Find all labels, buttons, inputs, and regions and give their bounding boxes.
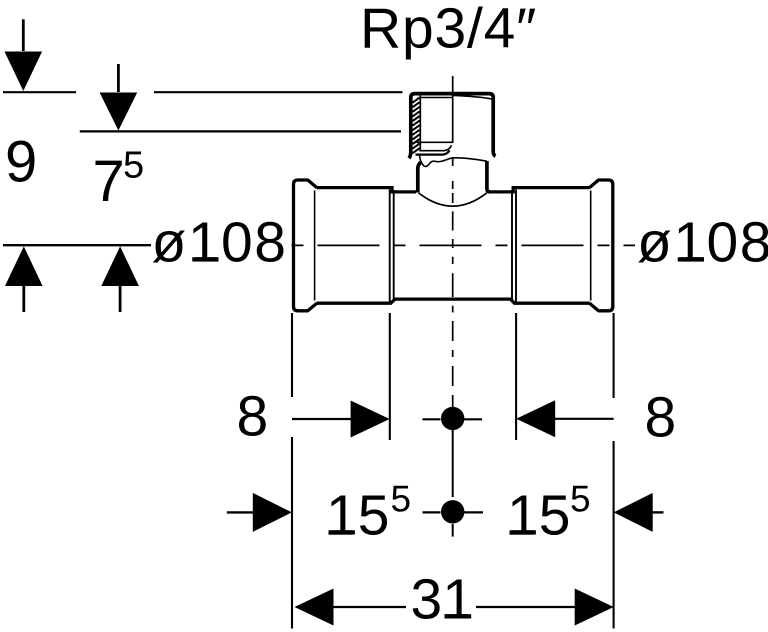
branch neck left edge <box>418 162 421 192</box>
svg-text:15: 15 <box>326 484 389 548</box>
thread undercut line lower <box>416 150 450 154</box>
thread hatching <box>413 98 420 154</box>
branch socket outline <box>409 94 496 159</box>
svg-text:15: 15 <box>507 484 570 548</box>
serif foot of digit 1 (31) <box>445 614 469 618</box>
left press collar bead <box>294 180 317 311</box>
section boundary line at branch center <box>452 95 454 143</box>
extension line 2 (left tube stop) <box>389 313 391 440</box>
svg-text:5: 5 <box>391 479 412 520</box>
svg-text:ø108: ø108 <box>637 210 768 274</box>
svg-text:5: 5 <box>570 479 591 520</box>
dimension arrow 15.5 right <box>614 493 664 532</box>
right press collar bead <box>590 180 613 311</box>
centerline stem below dot 2 <box>452 524 454 537</box>
left tube stop line <box>389 190 391 302</box>
svg-text:9: 9 <box>5 129 37 194</box>
origin dot row 15.5 <box>441 500 464 523</box>
left step line <box>393 190 395 301</box>
dimension arrow up (7.5) <box>101 246 139 312</box>
dimension line 8 right with arrow <box>516 400 613 437</box>
dot stubs row 8 <box>423 418 483 420</box>
dimension line top (9 upper reference) <box>3 91 403 93</box>
centerline horizontal (dash-dot through body) <box>292 244 636 246</box>
right step line <box>511 190 513 301</box>
origin dot row 8 <box>441 407 464 430</box>
left bead face line <box>314 191 316 301</box>
tee body outline right socket top edge <box>489 188 590 192</box>
branch neck right edge <box>487 161 490 192</box>
dimension arrow 15.5 left <box>227 493 292 532</box>
serif foot of digit 1 (left 15) <box>329 530 353 534</box>
thread minor line <box>419 96 421 152</box>
centerline vertical dashes through branch and body <box>452 157 454 407</box>
centerline vertical above branch <box>452 76 454 95</box>
right tube stop line <box>515 190 517 302</box>
serif foot of digit 1 (right 108) <box>681 257 705 261</box>
svg-text:8: 8 <box>645 386 677 450</box>
svg-text:8: 8 <box>237 384 269 448</box>
tee body outline left socket top edge <box>317 188 417 192</box>
dimension arrow down (9) <box>5 19 43 91</box>
dimension line 8 left with arrow <box>292 401 390 438</box>
dimension line 31 with arrows <box>295 589 614 626</box>
svg-text:ø108: ø108 <box>152 210 288 274</box>
extension line 5 (right bead outer) <box>613 313 615 629</box>
break line wavy <box>420 156 487 167</box>
dimension arrow up (9) <box>5 246 43 312</box>
svg-text:7: 7 <box>93 149 125 214</box>
svg-text:31: 31 <box>411 567 474 631</box>
branch to body intersection arc <box>419 193 487 206</box>
dimension line left (diameter reference) <box>3 244 151 246</box>
extension line 4 (right tube stop) <box>515 313 517 440</box>
branch mouth chamfer right (exterior) <box>453 95 492 99</box>
svg-text:Rp3/4″: Rp3/4″ <box>360 0 537 61</box>
serif foot of digit 1 (left 108) <box>195 257 219 261</box>
dimension arrow down (7.5) <box>100 64 138 131</box>
branch mouth inner line left (section) <box>420 97 452 99</box>
dimension line (7.5 lower reference) <box>80 130 401 132</box>
right bead face line <box>590 191 592 301</box>
serif foot of digit 1 (right 15) <box>510 530 534 534</box>
centerline between dots <box>452 430 454 497</box>
dot stubs row 15.5 <box>423 511 484 513</box>
tee body outline bottom edge <box>317 299 590 303</box>
extension line 1 (left bead outer) <box>291 313 293 629</box>
svg-text:5: 5 <box>123 145 144 187</box>
thread undercut line upper <box>419 145 451 150</box>
thread bottom line <box>416 141 452 143</box>
